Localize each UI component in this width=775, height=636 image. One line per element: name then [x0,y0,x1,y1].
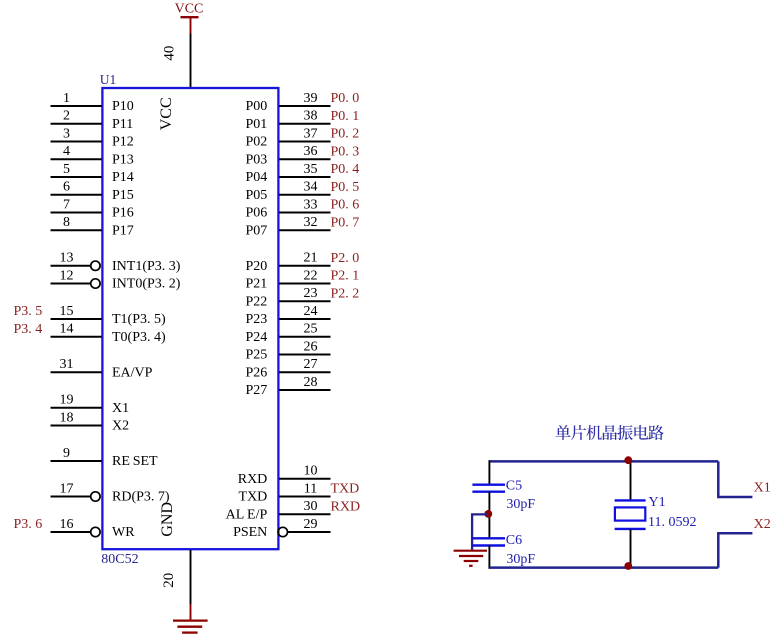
svg-text:P0. 4: P0. 4 [331,162,360,177]
svg-text:11. 0592: 11. 0592 [648,515,696,530]
svg-text:16: 16 [60,517,74,532]
svg-text:22: 22 [304,268,318,283]
svg-text:P0. 1: P0. 1 [331,109,360,124]
pin 6 wire (P15) [51,194,102,196]
pin 3 wire (P12) [51,141,102,143]
capacitor C5 [472,485,505,492]
pin 19 wire (X1) [51,407,102,409]
svg-text:35: 35 [304,162,318,177]
pin 12 wire (INT0(P3. 2)) [51,283,91,285]
wire left rail to C5 [488,460,490,485]
ground symbol (chip GND) [173,604,208,633]
svg-text:P0. 3: P0. 3 [331,144,360,159]
wire right rail to X1 [718,461,752,497]
pin 26 wire (P25) [279,354,331,356]
wire bottom net (XTAL2 bottom rail) [489,566,718,569]
wire ground drop [471,514,473,549]
pin 21 wire (P20) [279,265,331,267]
pin 22 wire (P21) [279,283,331,285]
svg-text:U1: U1 [100,72,117,87]
pin 1 wire (P10) [51,105,102,107]
svg-text:C5: C5 [506,479,522,494]
svg-text:P2. 0: P2. 0 [331,251,360,266]
svg-text:6: 6 [63,180,70,195]
svg-text:9: 9 [63,446,70,461]
wire junction to ground stub [471,513,488,515]
svg-text:P16: P16 [112,206,134,221]
pin 15 wire (T1(P3. 5)) [51,318,102,320]
pin 16 wire (WR) [51,531,91,533]
svg-text:10: 10 [304,464,318,479]
svg-text:T0(P3. 4): T0(P3. 4) [112,330,166,345]
junction node bottom rail / Y1 [624,562,632,570]
svg-text:GND: GND [159,502,176,537]
wire C5 to C6 [488,492,490,539]
wire C6 to bottom rail [488,546,490,569]
svg-text:EA/VP: EA/VP [112,365,153,380]
svg-text:31: 31 [60,357,74,372]
pin 2 wire (P11) [51,123,102,125]
svg-text:C6: C6 [506,533,522,548]
svg-text:2: 2 [63,109,70,124]
svg-text:X1: X1 [112,401,129,416]
svg-text:VCC: VCC [175,2,204,17]
svg-text:29: 29 [304,517,318,532]
pin 34 wire (P05) [279,194,331,196]
svg-text:7: 7 [63,197,70,212]
svg-text:P22: P22 [246,294,268,309]
svg-text:23: 23 [304,286,318,301]
svg-text:19: 19 [60,393,74,408]
svg-text:80C52: 80C52 [101,552,138,567]
pin 18 wire (X2) [51,425,102,427]
svg-text:4: 4 [63,144,70,159]
svg-text:P14: P14 [112,170,134,185]
pin 31 wire (EA/VP) [51,371,102,373]
svg-text:P03: P03 [246,152,268,167]
svg-text:P20: P20 [246,259,268,274]
svg-text:12: 12 [60,268,74,283]
svg-text:P11: P11 [112,117,133,132]
pin 13 wire (INT1(P3. 3)) [51,265,91,267]
pin 11 wire (TXD) [279,496,331,498]
svg-text:P23: P23 [246,312,268,327]
pin 5 wire (P14) [51,176,102,178]
svg-text:RXD: RXD [331,499,361,514]
svg-text:34: 34 [304,180,318,195]
svg-text:Y1: Y1 [649,495,666,510]
pin 10 wire (RXD) [279,478,331,480]
svg-text:30pF: 30pF [506,552,535,567]
svg-text:TXD: TXD [331,482,360,497]
svg-text:40: 40 [161,46,177,61]
svg-text:11: 11 [304,481,317,496]
wire Y1 top stub [630,461,632,500]
svg-text:24: 24 [304,304,318,319]
pin 39 wire (P00) [279,105,331,107]
svg-text:RXD: RXD [238,472,268,487]
pin 35 wire (P04) [279,176,331,178]
pin 25 wire (P24) [279,336,331,338]
svg-text:P26: P26 [246,365,268,380]
svg-text:15: 15 [60,304,74,319]
svg-text:RE SET: RE SET [112,454,158,469]
svg-text:P07: P07 [246,223,268,238]
svg-text:P00: P00 [246,99,268,114]
pin 14 wire (T0(P3. 4)) [51,336,102,338]
pin 32 wire (P07) [279,229,331,231]
svg-text:WR: WR [112,525,135,540]
pin 16 inversion circle [91,527,100,536]
svg-text:PSEN: PSEN [233,525,267,540]
svg-text:P15: P15 [112,188,134,203]
junction node top rail / Y1 [624,456,632,464]
svg-text:TXD: TXD [239,490,268,505]
svg-text:18: 18 [60,410,74,425]
svg-text:X2: X2 [754,517,771,532]
pin 37 wire (P02) [279,141,331,143]
svg-text:T1(P3. 5): T1(P3. 5) [112,312,166,327]
svg-text:25: 25 [304,322,318,337]
crystal Y1 [615,500,646,529]
svg-text:27: 27 [304,357,318,372]
svg-text:INT0(P3. 2): INT0(P3. 2) [112,277,181,292]
svg-text:1: 1 [63,91,70,106]
svg-text:P05: P05 [246,188,268,203]
svg-text:32: 32 [304,215,318,230]
svg-text:P02: P02 [246,135,268,150]
svg-text:36: 36 [304,144,318,159]
svg-text:P21: P21 [246,277,268,292]
ground symbol (oscillator) [454,551,487,566]
svg-text:P3. 4: P3. 4 [14,322,43,337]
wire top net (XTAL1 top rail) [489,460,718,463]
power symbol VCC bar [181,17,199,33]
pin 27 wire (P26) [279,371,331,373]
svg-text:P0. 5: P0. 5 [331,180,360,195]
pin 12 inversion circle [91,279,100,288]
svg-text:P0. 0: P0. 0 [331,91,360,106]
pin 30 wire (ALE/P) [279,513,331,515]
svg-text:P04: P04 [246,170,268,185]
svg-text:P24: P24 [246,330,268,345]
wire VCC to pin 40 [190,34,192,89]
svg-text:VCC: VCC [158,97,175,130]
svg-text:X2: X2 [112,419,129,434]
pin 33 wire (P06) [279,212,331,214]
wire pin 20 to ground [190,550,192,604]
svg-text:P25: P25 [246,348,268,363]
pin 38 wire (P01) [279,123,331,125]
pin 17 wire (RD(P3. 7)) [51,496,91,498]
pin 13 inversion circle [91,261,100,270]
pin 24 wire (P23) [279,318,331,320]
svg-text:8: 8 [63,215,70,230]
svg-text:P0. 6: P0. 6 [331,198,360,213]
svg-text:5: 5 [63,162,70,177]
pin 7 wire (P16) [51,212,102,214]
IC U1 (80C52 microcontroller) body [102,88,278,549]
wire Y1 bottom stub [630,529,632,568]
wire bottom rail to X2 [718,533,752,567]
pin 9 wire (RESET) [51,460,102,462]
svg-text:X1: X1 [754,480,771,495]
svg-text:33: 33 [304,197,318,212]
pin 8 wire (P17) [51,229,102,231]
svg-text:P06: P06 [246,206,268,221]
svg-text:P27: P27 [246,383,268,398]
pin 4 wire (P13) [51,158,102,160]
svg-text:P17: P17 [112,223,134,238]
svg-text:37: 37 [304,126,318,141]
svg-text:14: 14 [60,322,74,337]
svg-text:P0. 7: P0. 7 [331,215,360,230]
pin 17 inversion circle [91,492,100,501]
svg-text:28: 28 [304,375,318,390]
svg-text:INT1(P3. 3): INT1(P3. 3) [112,259,181,274]
svg-text:30: 30 [304,499,318,514]
pin 29 inversion circle [278,527,287,536]
svg-text:P10: P10 [112,99,134,114]
pin 23 wire (P22) [279,300,331,302]
svg-text:17: 17 [60,481,74,496]
svg-text:30pF: 30pF [506,497,535,512]
svg-text:P12: P12 [112,135,134,150]
svg-text:P3. 6: P3. 6 [14,517,43,532]
svg-text:P13: P13 [112,152,134,167]
svg-text:P3. 5: P3. 5 [14,304,43,319]
svg-text:P2. 1: P2. 1 [331,269,360,284]
svg-text:P2. 2: P2. 2 [331,286,360,301]
pin 28 wire (P27) [279,389,331,391]
svg-text:39: 39 [304,91,318,106]
capacitor C6 [472,538,505,545]
svg-text:13: 13 [60,251,74,266]
svg-text:38: 38 [304,109,318,124]
svg-text:3: 3 [63,126,70,141]
pin 29 wire (PSEN) [287,531,330,533]
svg-text:P01: P01 [246,117,268,132]
svg-text:RD(P3. 7): RD(P3. 7) [112,490,170,505]
junction node C5/C6/ground [484,510,492,518]
svg-text:21: 21 [304,251,318,266]
title text 单片机晶振电路 (drawn as paths) [555,425,663,440]
svg-text:AL E/P: AL E/P [226,507,268,522]
svg-text:20: 20 [161,573,177,588]
svg-text:P0. 2: P0. 2 [331,127,360,142]
svg-text:26: 26 [304,339,318,354]
pin 36 wire (P03) [279,158,331,160]
